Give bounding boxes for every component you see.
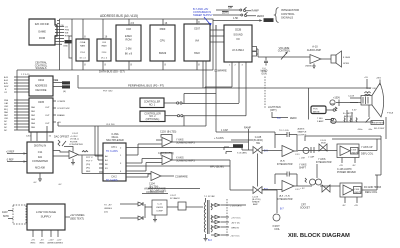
svg-text:GRN 6V: GRN 6V [231, 228, 240, 230]
svg-text:1K x 4: 1K x 4 [79, 58, 86, 60]
svg-text:1 CAP: 1 CAP [221, 129, 228, 132]
svg-text:DC AND HORIZ: DC AND HORIZ [364, 186, 382, 189]
svg-text:A-10: A-10 [312, 45, 318, 49]
svg-text:DEFL COIL: DEFL COIL [361, 153, 374, 156]
svg-text:SUPPLY: SUPPLY [41, 215, 52, 219]
svg-text:CONTROL: CONTROL [278, 49, 291, 53]
svg-text:REG: REG [40, 243, 45, 245]
svg-text:MULTIPLEXER: MULTIPLEXER [106, 138, 124, 142]
svg-text:AY-3-8912: AY-3-8912 [232, 48, 244, 52]
svg-text:LM393: LM393 [156, 207, 163, 209]
svg-text:-5V: -5V [33, 182, 37, 184]
svg-text:+ (TO CRT): + (TO CRT) [230, 206, 242, 208]
svg-text:6522: 6522 [194, 51, 200, 55]
svg-text:RAM: RAM [80, 45, 85, 48]
svg-text:C-11: C-11 [295, 154, 300, 156]
svg-text:+5V: +5V [364, 77, 368, 79]
svg-text:2114: 2114 [102, 52, 107, 54]
svg-text:C004: C004 [38, 78, 45, 82]
svg-text:NC: NC [4, 124, 8, 126]
svg-text:AUDIO AMP: AUDIO AMP [307, 48, 321, 52]
svg-text:-90 V DC: -90 V DC [231, 223, 240, 225]
svg-text:RAM: RAM [102, 45, 107, 48]
svg-text:FILTER: FILTER [70, 141, 78, 143]
svg-text:+9V: +9V [339, 165, 343, 167]
svg-text:MC1408: MC1408 [35, 166, 45, 170]
svg-text:TO C-105: TO C-105 [279, 130, 289, 132]
svg-text:BLANK: BLANK [234, 145, 242, 148]
svg-text:RAM: RAM [63, 82, 68, 85]
svg-text:POT CN2: POT CN2 [103, 91, 113, 93]
svg-text:A AXIS: A AXIS [298, 128, 305, 131]
svg-text:ZERO: ZERO [290, 117, 297, 120]
svg-text:OUT: OUT [45, 107, 50, 109]
svg-text:(P1): (P1) [86, 168, 90, 170]
svg-text:REG: REG [31, 243, 36, 245]
svg-text:X 05 (BR): X 05 (BR) [237, 153, 247, 155]
svg-text:LM379: LM379 [351, 152, 358, 154]
svg-text:INTEGRATOR: INTEGRATOR [277, 198, 293, 201]
svg-text:VIA: VIA [195, 39, 199, 43]
svg-text:FRAME: FRAME [57, 114, 65, 117]
svg-text:COMPARATOR: COMPARATOR [146, 190, 164, 194]
svg-text:GND: GND [63, 45, 68, 47]
svg-text:B-7: B-7 [280, 208, 284, 211]
svg-text:UNREG: UNREG [55, 243, 63, 245]
svg-text:BRIGHTNESS: BRIGHTNESS [372, 123, 385, 125]
svg-text:-12V: -12V [57, 240, 62, 242]
svg-text:+150V: +150V [333, 97, 340, 100]
svg-text:1.5K: 1.5K [233, 16, 239, 20]
svg-text:-9V: -9V [352, 165, 356, 167]
svg-text:12D3: 12D3 [26, 136, 32, 138]
svg-text:TO +9V: TO +9V [104, 205, 112, 207]
svg-text:NO. 1: NO. 1 [149, 104, 156, 107]
svg-text:110V: 110V [2, 210, 8, 214]
svg-text:DIGITAL IN: DIGITAL IN [34, 145, 46, 148]
svg-text:NC: NC [4, 121, 8, 123]
svg-text:ADDRESS: ADDRESS [35, 84, 48, 88]
svg-text:COMPR: COMPR [57, 101, 66, 103]
svg-text:-5V: -5V [58, 184, 62, 186]
svg-text:UNREG: UNREG [47, 243, 55, 245]
svg-text:I/O: I/O [236, 37, 239, 41]
svg-text:-9V: -9V [342, 205, 346, 207]
svg-text:C007: C007 [194, 27, 201, 31]
svg-text:ROM: ROM [63, 87, 68, 89]
svg-text:+ S AXIS: + S AXIS [214, 137, 224, 140]
svg-text:ROM: ROM [126, 38, 132, 42]
svg-text:RAMP: RAMP [252, 8, 260, 12]
svg-text:+5V: +5V [31, 240, 35, 242]
svg-text:DEFL COIL: DEFL COIL [365, 191, 378, 194]
svg-text:MPU (BLNK): MPU (BLNK) [210, 166, 224, 169]
svg-text:C103 (B-LT34): C103 (B-LT34) [158, 152, 174, 155]
svg-text:RAMP: RAMP [244, 127, 251, 130]
svg-text:(TO ALL): (TO ALL) [70, 138, 79, 141]
svg-text:TO X-AXIS: TO X-AXIS [106, 150, 118, 153]
svg-text:CONVERTER: CONVERTER [32, 159, 48, 163]
svg-text:POT Y: POT Y [86, 161, 93, 163]
svg-text:C-107: C-107 [170, 195, 177, 197]
svg-text:SHIFT: SHIFT [299, 167, 306, 170]
svg-text:+ LIM: + LIM [299, 158, 305, 160]
svg-text:XIII. BLOCK DIAGRAM: XIII. BLOCK DIAGRAM [288, 233, 350, 239]
svg-text:(E): (E) [63, 91, 66, 93]
svg-text:EXEC: EXEC [125, 34, 132, 38]
svg-text:COMP: COMP [156, 211, 163, 213]
svg-text:BLANK: BLANK [265, 19, 273, 22]
svg-text:8K x 8: 8K x 8 [125, 52, 133, 56]
svg-text:SIGNALS: SIGNALS [281, 16, 293, 20]
svg-text:+5 VDC: +5 VDC [70, 136, 78, 138]
svg-text:C-11: C-11 [157, 204, 162, 206]
svg-text:8 OHM: 8 OHM [343, 57, 350, 59]
svg-text:GUN: GUN [261, 72, 267, 75]
svg-text:CONVERTER: CONVERTER [69, 144, 83, 146]
svg-text:SPKR: SPKR [343, 63, 349, 65]
svg-text:POT X: POT X [86, 157, 93, 159]
svg-text:(OPTIONAL): (OPTIONAL) [146, 118, 160, 121]
svg-text:C11: C11 [38, 150, 43, 154]
svg-text:7 SEL: 7 SEL [317, 118, 324, 120]
svg-text:L CAP: L CAP [308, 156, 315, 159]
svg-text:C106: C106 [354, 189, 360, 191]
svg-text:P 31A: P 31A [387, 112, 393, 115]
svg-text:6809: 6809 [160, 27, 166, 31]
svg-text:(LV): (LV) [104, 212, 108, 214]
svg-text:DATA BUS (D0 - D7): DATA BUS (D0 - D7) [99, 70, 125, 74]
svg-text:UNREG: UNREG [104, 208, 112, 210]
svg-text:2-5M: 2-5M [126, 47, 132, 51]
svg-text:C-102: C-102 [72, 133, 79, 135]
svg-text:-100v: -100v [357, 129, 363, 131]
svg-text:REF: REF [86, 171, 91, 173]
svg-text:GAME: GAME [38, 30, 46, 34]
svg-text:MUX: MUX [321, 143, 326, 145]
svg-text:+9V UNREG: +9V UNREG [70, 213, 85, 217]
svg-text:68A09: 68A09 [159, 51, 167, 55]
svg-text:POWER DRIVER: POWER DRIVER [337, 171, 356, 174]
svg-text:CH 1: CH 1 [111, 146, 117, 149]
svg-text:LOW VOLTAGE: LOW VOLTAGE [36, 210, 56, 214]
svg-text:COMPARE: COMPARE [175, 175, 188, 179]
svg-text:PERIPHERAL BUS (P0 - P7): PERIPHERAL BUS (P0 - P7) [128, 83, 164, 87]
svg-text:DAC OFFSET: DAC OFFSET [54, 136, 70, 139]
svg-text:-5V: -5V [40, 240, 44, 242]
svg-text:OE: OE [61, 25, 65, 27]
svg-text:D/A: D/A [38, 155, 43, 159]
svg-text:COIL: COIL [274, 228, 280, 231]
svg-text:NC: NC [4, 127, 8, 129]
svg-text:DECODE: DECODE [36, 88, 47, 92]
svg-text:CMP: CMP [65, 42, 70, 44]
svg-text:INTEGRATOR: INTEGRATOR [277, 163, 293, 166]
svg-text:HOR YOK: HOR YOK [366, 88, 377, 90]
svg-text:LM379: LM379 [354, 192, 361, 194]
svg-text:32K OR 64K: 32K OR 64K [35, 22, 50, 26]
svg-text:+2 REF: +2 REF [6, 150, 15, 153]
svg-text:IRQ: IRQ [4, 109, 8, 111]
svg-text:B-9: B-9 [264, 150, 268, 153]
svg-text:C005: C005 [38, 100, 45, 104]
svg-text:-2 REF: -2 REF [6, 158, 14, 161]
svg-text:+9V: +9V [354, 205, 358, 207]
svg-text:6.3V: 6.3V [352, 110, 357, 112]
svg-text:(SEE TEXT): (SEE TEXT) [70, 216, 84, 220]
svg-text:ROM: ROM [39, 36, 45, 40]
svg-text:C106: C106 [351, 150, 357, 152]
svg-text:3 AMP: 3 AMP [317, 120, 324, 123]
svg-text:BRITE: BRITE [313, 111, 320, 113]
svg-text:Y AXIS UP: Y AXIS UP [361, 146, 373, 149]
svg-text:SOUND: SOUND [233, 33, 242, 37]
svg-text:ADDRESS BUS (A0 / A15): ADDRESS BUS (A0 / A15) [100, 14, 138, 18]
svg-text:FLYBACK: FLYBACK [170, 197, 180, 200]
svg-text:SIGNALS: SIGNALS [35, 66, 46, 70]
svg-text:+8kV: +8kV [376, 78, 382, 80]
svg-text:C03: C03 [126, 27, 131, 31]
svg-text:CPU: CPU [160, 39, 166, 43]
svg-text:(P0): (P0) [86, 164, 90, 166]
svg-text:C103: C103 [160, 131, 166, 134]
svg-text:2114: 2114 [80, 52, 85, 54]
svg-text:+ 5V: + 5V [300, 188, 305, 190]
svg-text:WE: WE [65, 32, 69, 34]
svg-text:60Hz: 60Hz [3, 214, 10, 218]
svg-text:C-108: C-108 [348, 96, 355, 98]
svg-text:+12V: +12V [48, 240, 54, 242]
svg-text:LM386: LM386 [305, 66, 312, 68]
svg-text:OUT: OUT [45, 115, 50, 117]
svg-text:SWEEP SUPPLY: SWEEP SUPPLY [193, 13, 213, 17]
svg-text:C02B: C02B [235, 28, 242, 32]
svg-text:OUT: OUT [45, 123, 50, 125]
svg-text:INTEGRATOR: INTEGRATOR [316, 161, 332, 164]
svg-text:(B-LT35): (B-LT35) [167, 131, 176, 134]
svg-text:NC: NC [4, 130, 8, 132]
svg-text:ZERO: ZERO [257, 14, 264, 18]
svg-text:TO Y-AXIS: TO Y-AXIS [106, 179, 118, 182]
svg-text:FLYBK: FLYBK [208, 196, 215, 198]
svg-text:C05A: C05A [80, 41, 86, 44]
svg-text:- 50 V DC: - 50 V DC [230, 236, 240, 238]
svg-text:1K x 4: 1K x 4 [101, 58, 108, 60]
svg-text:RG 2/10W: RG 2/10W [374, 128, 385, 130]
svg-text:CS: CS [65, 26, 69, 28]
svg-text:+70 V DC: +70 V DC [231, 218, 241, 220]
svg-text:(OPT): (OPT) [270, 109, 277, 112]
svg-text:COMPARE: COMPARE [214, 69, 227, 73]
svg-text:GND: GND [330, 104, 335, 106]
svg-text:AMP: AMP [253, 203, 258, 206]
svg-text:SOCKET: SOCKET [300, 207, 310, 210]
svg-text:POS: POS [313, 108, 318, 110]
svg-text:COUNT S/W: COUNT S/W [57, 108, 70, 110]
svg-text:SAMPLE: SAMPLE [298, 131, 307, 134]
svg-text:B-3: B-3 [208, 239, 212, 242]
